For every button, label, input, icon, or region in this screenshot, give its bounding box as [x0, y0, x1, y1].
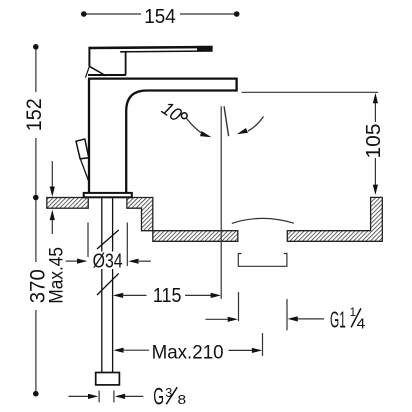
hose break diagonal lower — [97, 273, 119, 295]
Ø34 right arrow — [139, 260, 151, 262]
dimension 154 line left segment — [84, 13, 141, 15]
dimension 154 right dot — [234, 11, 240, 17]
Ø34 label backing — [91, 252, 125, 270]
svg-text:Ø34: Ø34 — [93, 250, 123, 272]
faucet lever tip cap — [197, 46, 213, 51]
Max.45 lower arrow line — [51, 220, 53, 234]
pop-up rod knob — [76, 139, 89, 159]
left dimension line segment (370 upper) — [35, 198, 37, 263]
hose break diagonal upper — [97, 230, 119, 249]
svg-text:Max.210: Max.210 — [152, 341, 224, 363]
svg-text:3: 3 — [165, 386, 172, 400]
Max.210 line left — [123, 349, 150, 351]
handle base outer tab line — [85, 66, 89, 77]
G1 1/4 left extension tick — [238, 292, 240, 321]
supply hose left line — [101, 197, 103, 372]
handle base left edge — [88, 47, 90, 67]
105 dimension upper arrowhead — [373, 93, 378, 103]
svg-text:Max.45: Max.45 — [45, 247, 67, 304]
handle base right edge — [125, 52, 127, 76]
svg-text:4: 4 — [357, 316, 366, 332]
svg-text:8: 8 — [178, 393, 187, 407]
G3/8 left tick — [98, 391, 100, 403]
G3/8 right tick — [113, 391, 115, 403]
dimension 154 left dot — [81, 11, 87, 17]
105 dimension lower arrowhead — [373, 185, 378, 195]
10 degree label — [157, 98, 190, 130]
drain hole outline (U shape) — [238, 254, 287, 267]
svg-text:115: 115 — [153, 285, 182, 307]
left dimension line segment (370 lower) — [35, 310, 37, 394]
hose end fitting G3/8 nut — [96, 373, 120, 385]
Max.45 upper arrow line — [51, 161, 53, 187]
G1 1/4 left arrow — [206, 318, 229, 320]
left dimension bottom dot — [33, 391, 39, 397]
G1 1/4 label — [330, 306, 365, 332]
Max.210 right arrowhead — [252, 348, 262, 353]
countertop left slab (hatched) — [47, 198, 89, 209]
115 dimension right arrowhead — [211, 293, 221, 298]
dimension 154 line right segment — [180, 13, 237, 15]
svg-text:G1: G1 — [330, 306, 346, 332]
Ø34 right extension line — [126, 223, 128, 267]
mounting hole left edge — [87, 198, 89, 209]
faucet lever bottom edge — [120, 50, 212, 53]
drain centerline tick — [262, 333, 264, 356]
faucet lever top edge — [89, 47, 213, 48]
105 extension line from spout — [242, 91, 379, 93]
faucet base plate — [84, 193, 132, 197]
basin bottom arc over drain — [232, 218, 294, 223]
Max.45 upper arrowhead (down) — [50, 187, 55, 197]
handle base chamfer diagonal — [89, 66, 106, 76]
G1 1/4 right arrow — [298, 318, 324, 320]
115 dimension line left — [122, 294, 147, 296]
left dimension middle dot — [33, 195, 39, 201]
G1 1/4 right extension tick — [286, 299, 288, 330]
handle base bottom line — [88, 74, 126, 76]
svg-text:1: 1 — [350, 307, 356, 319]
svg-text:152: 152 — [23, 98, 46, 131]
countertop step slab (hatched) — [127, 198, 238, 242]
10 degree left arc arrow — [187, 119, 204, 135]
10 degree tilted line — [224, 106, 229, 136]
countertop right slab with end column (hatched) — [287, 197, 382, 241]
left dimension top dot — [33, 44, 39, 50]
115 dimension line right — [185, 294, 211, 296]
supply hose right line — [112, 197, 114, 372]
10 degree right arc arrow — [248, 117, 264, 132]
G3/8 right arrow — [125, 395, 144, 397]
faucet body and spout outline — [88, 79, 237, 193]
G3/8 label — [153, 383, 186, 410]
svg-text:G: G — [153, 383, 164, 410]
svg-text:105: 105 — [363, 124, 385, 159]
Max.210 line right — [229, 349, 253, 351]
Ø34 left extension line — [87, 223, 89, 258]
105 dimension line upper — [374, 101, 376, 122]
105 dimension line lower — [374, 158, 376, 185]
G3/8 left arrow — [69, 395, 90, 397]
pop-up rod stem — [80, 158, 89, 182]
Max.45 lower arrowhead (up) — [50, 210, 55, 220]
left dimension line segment (152 lower) — [35, 138, 37, 198]
left dimension line segment (152 upper) — [35, 47, 37, 92]
Ø34 left arrow — [66, 260, 78, 262]
Max.210 left arrowhead — [113, 348, 123, 353]
spout axis centerline — [220, 106, 222, 299]
115 dimension left arrowhead — [113, 293, 123, 298]
mounting hole right edge — [126, 198, 128, 209]
svg-text:154: 154 — [144, 6, 176, 28]
